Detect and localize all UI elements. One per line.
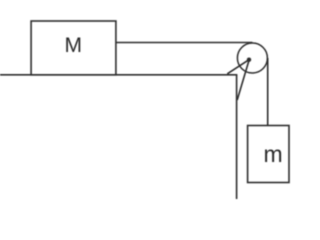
mass m: [248, 126, 289, 183]
pulley axle: [247, 58, 251, 62]
bracket lower edge: [237, 60, 249, 100]
wire table right edge: [236, 74, 238, 199]
svg-text:M: M: [65, 34, 83, 57]
pulley: [237, 43, 267, 73]
bracket upper edge: [227, 60, 249, 74]
wire table surface: [0, 74, 237, 76]
wire string horizontal: [116, 42, 253, 44]
block M: [31, 21, 116, 75]
wire string vertical: [267, 58, 269, 126]
svg-text:m: m: [264, 141, 283, 167]
